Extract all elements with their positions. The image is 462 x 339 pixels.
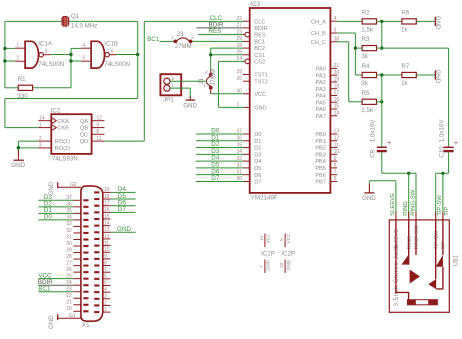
svg-text:5: 5 bbox=[104, 280, 107, 286]
svg-text:PA5: PA5 bbox=[316, 100, 326, 106]
svg-text:IC1B: IC1B bbox=[104, 41, 118, 48]
svg-text:GND: GND bbox=[48, 315, 55, 329]
svg-text:1: 1 bbox=[171, 35, 174, 40]
svg-text:PB4: PB4 bbox=[315, 159, 326, 165]
svg-text:14: 14 bbox=[39, 115, 45, 121]
svg-text:BC2: BC2 bbox=[254, 46, 265, 52]
svg-text:2: 2 bbox=[39, 136, 42, 142]
svg-text:GND: GND bbox=[117, 226, 131, 233]
svg-text:74LS00N: 74LS00N bbox=[104, 61, 130, 68]
svg-text:D2: D2 bbox=[254, 146, 261, 152]
svg-text:PB5: PB5 bbox=[315, 166, 326, 172]
svg-text:PA1: PA1 bbox=[316, 73, 326, 79]
svg-text:PA0: PA0 bbox=[316, 67, 326, 73]
svg-text:TIP: TIP bbox=[444, 207, 450, 216]
svg-text:10: 10 bbox=[104, 247, 110, 253]
svg-text:SLEEVE: SLEEVE bbox=[394, 228, 400, 249]
svg-text:C10: C10 bbox=[438, 146, 445, 158]
svg-text:R2: R2 bbox=[362, 9, 370, 16]
svg-text:1,5k: 1,5k bbox=[361, 26, 374, 33]
svg-text:+: + bbox=[454, 140, 458, 147]
svg-text:D7: D7 bbox=[254, 180, 261, 186]
svg-text:IC2: IC2 bbox=[51, 108, 61, 115]
svg-text:39: 39 bbox=[237, 69, 243, 75]
svg-text:JP1: JP1 bbox=[163, 97, 174, 104]
svg-text:74LS93N: 74LS93N bbox=[52, 155, 78, 162]
svg-text:PB6: PB6 bbox=[315, 173, 326, 179]
svg-text:PA3: PA3 bbox=[316, 87, 326, 93]
svg-text:20: 20 bbox=[334, 70, 340, 76]
svg-text:8: 8 bbox=[104, 260, 107, 266]
svg-text:BC1: BC1 bbox=[254, 40, 265, 46]
svg-text:29: 29 bbox=[66, 247, 72, 253]
svg-text:11: 11 bbox=[334, 142, 339, 148]
svg-text:PB0: PB0 bbox=[315, 132, 326, 138]
svg-text:RING: RING bbox=[403, 201, 409, 216]
svg-text:21: 21 bbox=[66, 300, 72, 306]
svg-text:12: 12 bbox=[334, 135, 340, 141]
svg-text:27: 27 bbox=[66, 260, 72, 266]
svg-text:IC1A: IC1A bbox=[38, 41, 53, 48]
svg-text:3: 3 bbox=[45, 49, 48, 55]
svg-text:RES: RES bbox=[209, 28, 222, 35]
svg-text:D7: D7 bbox=[118, 206, 127, 213]
svg-text:IC3: IC3 bbox=[250, 1, 260, 8]
svg-text:PB2: PB2 bbox=[315, 146, 326, 152]
svg-text:RO(1): RO(1) bbox=[55, 139, 70, 145]
svg-text:RING-SW: RING-SW bbox=[410, 189, 416, 216]
svg-text:7: 7 bbox=[259, 265, 265, 268]
svg-text:J7MM: J7MM bbox=[175, 43, 192, 50]
svg-text:CKA: CKA bbox=[57, 119, 69, 125]
svg-text:1k: 1k bbox=[401, 26, 408, 33]
svg-text:TIP: TIP bbox=[441, 241, 447, 250]
svg-text:R6: R6 bbox=[401, 9, 409, 16]
svg-text:D0: D0 bbox=[44, 214, 53, 221]
svg-text:D3: D3 bbox=[254, 152, 261, 158]
svg-text:IC1P: IC1P bbox=[261, 250, 275, 257]
svg-text:RO(2): RO(2) bbox=[55, 146, 70, 152]
svg-text:G1: G1 bbox=[69, 313, 76, 319]
svg-text:18: 18 bbox=[334, 83, 340, 89]
svg-text:28: 28 bbox=[66, 254, 72, 260]
svg-text:1,0x16V: 1,0x16V bbox=[369, 119, 376, 143]
svg-text:PB1: PB1 bbox=[315, 139, 326, 145]
svg-text:19: 19 bbox=[104, 187, 110, 193]
svg-text:D6: D6 bbox=[254, 173, 261, 179]
svg-text:CH_C: CH_C bbox=[311, 40, 326, 46]
svg-text:YM2149F: YM2149F bbox=[251, 195, 278, 202]
svg-text:QC: QC bbox=[80, 132, 88, 138]
svg-text:PA2: PA2 bbox=[316, 80, 326, 86]
svg-text:GND: GND bbox=[254, 106, 266, 112]
svg-text:IC2P: IC2P bbox=[281, 250, 295, 257]
svg-text:VCC: VCC bbox=[254, 92, 266, 98]
svg-text:33: 33 bbox=[66, 221, 72, 227]
svg-text:30: 30 bbox=[66, 241, 72, 247]
svg-text:D5: D5 bbox=[254, 166, 261, 172]
svg-text:GND: GND bbox=[183, 102, 197, 109]
svg-text:Q1: Q1 bbox=[71, 13, 80, 20]
svg-text:BDIR: BDIR bbox=[254, 26, 267, 32]
svg-text:8: 8 bbox=[334, 163, 337, 169]
svg-text:R3: R3 bbox=[362, 36, 370, 43]
svg-text:G2: G2 bbox=[70, 182, 77, 188]
svg-text:GND: GND bbox=[11, 162, 25, 169]
svg-text:QB: QB bbox=[80, 126, 88, 132]
svg-text:QA: QA bbox=[80, 119, 88, 125]
svg-text:1: 1 bbox=[39, 122, 42, 128]
svg-text:BC1: BC1 bbox=[38, 286, 51, 293]
svg-text:12: 12 bbox=[104, 234, 110, 240]
svg-text:9: 9 bbox=[334, 156, 337, 162]
svg-text:26: 26 bbox=[66, 267, 72, 273]
svg-text:26: 26 bbox=[237, 76, 243, 82]
svg-text:GND: GND bbox=[48, 181, 55, 195]
svg-text:20: 20 bbox=[66, 306, 72, 312]
svg-text:13: 13 bbox=[104, 227, 110, 233]
svg-text:14,0 MHz: 14,0 MHz bbox=[71, 22, 97, 29]
svg-text:2: 2 bbox=[172, 76, 175, 81]
svg-text:4: 4 bbox=[82, 43, 85, 49]
svg-text:U$1: U$1 bbox=[453, 254, 460, 266]
svg-text:TIP-SW: TIP-SW bbox=[437, 195, 443, 216]
svg-text:PA6: PA6 bbox=[316, 107, 326, 113]
svg-text:TST1: TST1 bbox=[254, 73, 268, 79]
svg-text:R1: R1 bbox=[18, 76, 26, 83]
svg-text:7: 7 bbox=[334, 169, 337, 175]
svg-text:RES: RES bbox=[254, 33, 266, 39]
svg-text:9: 9 bbox=[96, 122, 99, 128]
svg-text:1k: 1k bbox=[401, 80, 408, 87]
svg-text:4: 4 bbox=[104, 287, 107, 293]
svg-text:10: 10 bbox=[334, 149, 340, 155]
svg-text:R7: R7 bbox=[401, 63, 409, 70]
svg-text:10: 10 bbox=[279, 262, 285, 268]
svg-text:VCC: VCC bbox=[266, 233, 272, 244]
svg-text:3k: 3k bbox=[361, 80, 368, 87]
svg-text:PB3: PB3 bbox=[315, 152, 326, 158]
svg-text:D7: D7 bbox=[211, 175, 220, 182]
svg-text:CS1: CS1 bbox=[254, 53, 265, 59]
svg-text:BC1: BC1 bbox=[147, 36, 160, 43]
svg-text:TIP-SW: TIP-SW bbox=[434, 230, 440, 250]
svg-text:14: 14 bbox=[334, 110, 340, 116]
svg-text:15: 15 bbox=[334, 104, 340, 110]
svg-text:GND: GND bbox=[362, 195, 376, 202]
svg-text:PA4: PA4 bbox=[316, 94, 326, 100]
svg-text:3: 3 bbox=[334, 28, 337, 34]
svg-text:D1: D1 bbox=[254, 139, 261, 145]
svg-text:1: 1 bbox=[172, 83, 175, 88]
svg-text:D0: D0 bbox=[254, 132, 261, 138]
svg-text:1: 1 bbox=[16, 43, 19, 49]
svg-text:GND: GND bbox=[434, 16, 441, 30]
svg-text:D4: D4 bbox=[254, 159, 261, 165]
svg-text:13: 13 bbox=[334, 129, 340, 135]
svg-text:C9: C9 bbox=[369, 149, 376, 157]
svg-text:X1: X1 bbox=[82, 322, 90, 329]
svg-text:2: 2 bbox=[16, 56, 19, 62]
svg-text:PA7: PA7 bbox=[316, 114, 326, 120]
svg-text:1,0x16V: 1,0x16V bbox=[438, 119, 445, 143]
svg-text:3: 3 bbox=[104, 294, 107, 300]
svg-text:3k: 3k bbox=[361, 53, 368, 60]
svg-text:QD: QD bbox=[80, 139, 88, 145]
svg-text:6: 6 bbox=[104, 274, 107, 280]
svg-text:6: 6 bbox=[334, 176, 337, 182]
svg-text:32: 32 bbox=[66, 228, 72, 234]
svg-text:16: 16 bbox=[334, 97, 340, 103]
svg-text:CS2: CS2 bbox=[254, 60, 265, 66]
svg-text:19: 19 bbox=[334, 77, 340, 83]
svg-text:2: 2 bbox=[104, 300, 107, 306]
svg-text:3: 3 bbox=[39, 143, 42, 149]
svg-text:R4: R4 bbox=[362, 63, 370, 70]
svg-text:RING-SW: RING-SW bbox=[414, 225, 420, 250]
svg-text:R5: R5 bbox=[362, 90, 370, 97]
svg-text:11: 11 bbox=[104, 240, 109, 246]
svg-text:8: 8 bbox=[96, 129, 99, 135]
svg-text:22: 22 bbox=[66, 293, 72, 299]
svg-text:1,5k: 1,5k bbox=[361, 107, 374, 114]
svg-text:J3: J3 bbox=[177, 31, 184, 38]
svg-text:J7MM: J7MM bbox=[210, 69, 217, 86]
svg-text:GND: GND bbox=[266, 259, 272, 270]
svg-text:TST2: TST2 bbox=[254, 79, 268, 85]
svg-text:16: 16 bbox=[104, 207, 110, 213]
svg-text:CLC: CLC bbox=[254, 19, 265, 25]
svg-text:PB7: PB7 bbox=[315, 180, 326, 186]
svg-text:RING: RING bbox=[407, 236, 413, 249]
svg-text:GND: GND bbox=[434, 69, 441, 83]
svg-text:21: 21 bbox=[334, 63, 340, 69]
svg-text:14: 14 bbox=[259, 235, 265, 241]
svg-text:2: 2 bbox=[205, 70, 208, 75]
svg-text:5: 5 bbox=[279, 238, 285, 241]
svg-text:15: 15 bbox=[104, 214, 110, 220]
svg-text:14: 14 bbox=[104, 220, 110, 226]
svg-text:4: 4 bbox=[334, 16, 337, 22]
svg-text:9: 9 bbox=[104, 254, 107, 260]
svg-text:VCC: VCC bbox=[286, 233, 292, 244]
svg-text:CH_A: CH_A bbox=[311, 19, 326, 25]
svg-text:2: 2 bbox=[191, 35, 194, 40]
svg-text:CH_B: CH_B bbox=[311, 31, 326, 37]
svg-text:1: 1 bbox=[104, 307, 107, 313]
svg-text:SLEEVE: SLEEVE bbox=[390, 193, 396, 216]
svg-text:5: 5 bbox=[82, 56, 85, 62]
svg-text:31: 31 bbox=[66, 234, 72, 240]
svg-text:17: 17 bbox=[104, 201, 110, 207]
svg-text:6: 6 bbox=[111, 49, 114, 55]
svg-text:11: 11 bbox=[96, 136, 101, 142]
svg-text:74LS00N: 74LS00N bbox=[38, 61, 64, 68]
svg-text:12: 12 bbox=[96, 115, 102, 121]
svg-text:17: 17 bbox=[334, 90, 340, 96]
svg-text:GND: GND bbox=[286, 259, 292, 270]
svg-text:+: + bbox=[387, 140, 391, 147]
svg-text:CKB: CKB bbox=[57, 126, 69, 132]
svg-text:18: 18 bbox=[104, 194, 110, 200]
svg-text:7: 7 bbox=[104, 267, 107, 273]
